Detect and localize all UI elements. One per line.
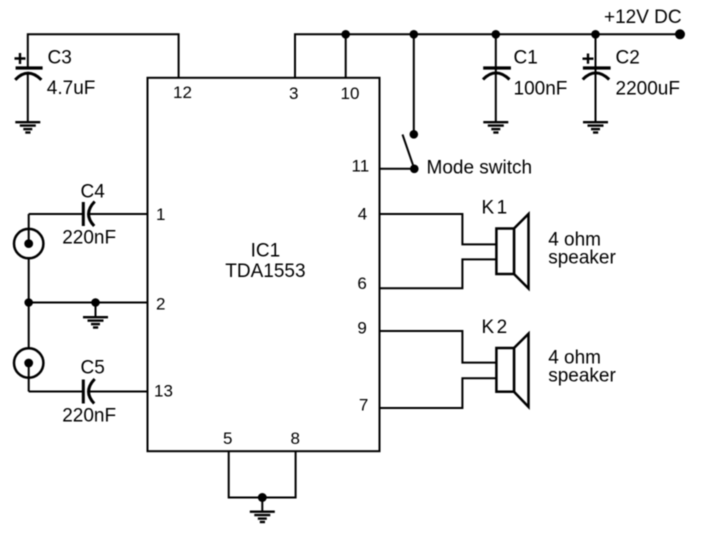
ground below C1 — [483, 122, 508, 132]
svg-text:C5: C5 — [81, 358, 105, 379]
svg-text:220nF: 220nF — [62, 228, 116, 249]
svg-text:11: 11 — [352, 157, 370, 176]
connector J1 input — [14, 229, 43, 258]
svg-text:220nF: 220nF — [62, 406, 116, 427]
ground below C3 — [15, 122, 40, 132]
connector J2 input — [14, 348, 43, 377]
wire C3 top to pin 12 — [28, 34, 179, 78]
wire C2 to ground — [595, 74, 597, 121]
node junction pin5/8 ground — [258, 493, 267, 502]
svg-text:C4: C4 — [81, 182, 106, 203]
svg-text:speaker: speaker — [548, 247, 616, 268]
wire ground stub bottom — [261, 498, 263, 511]
svg-text:12: 12 — [173, 83, 192, 102]
svg-text:4: 4 — [358, 205, 367, 224]
ground below C2 — [583, 122, 608, 132]
wire pin 7 to K2 — [380, 378, 497, 408]
svg-text:2200uF: 2200uF — [616, 79, 680, 100]
wire C1 to ground — [495, 74, 497, 121]
svg-text:13: 13 — [154, 382, 173, 401]
svg-text:3: 3 — [289, 84, 298, 103]
wire ground stub pin2 — [95, 303, 97, 317]
wire pin 11 — [380, 168, 415, 170]
svg-text:+12V DC: +12V DC — [604, 7, 682, 28]
svg-text:speaker: speaker — [548, 366, 616, 387]
svg-text:IC1: IC1 — [251, 241, 281, 262]
svg-text:K2: K2 — [482, 317, 510, 338]
svg-text:8: 8 — [291, 429, 300, 448]
speaker K1 — [496, 214, 528, 289]
wire pin 1 line — [29, 213, 148, 215]
svg-text:K1: K1 — [482, 198, 510, 219]
capacitor C4 — [62, 182, 116, 249]
switch S1 mode switch — [403, 130, 419, 173]
capacitor C2 — [583, 34, 680, 99]
svg-text:TDA1553: TDA1553 — [225, 261, 305, 282]
svg-text:9: 9 — [357, 319, 366, 338]
IC U1 box TDA1553 — [148, 78, 380, 451]
ground below IC — [250, 512, 275, 522]
wire input bus vertical — [28, 214, 30, 392]
wire pin 6 to K1 — [380, 259, 497, 288]
wire power rail pin3 to +12V — [295, 34, 680, 78]
node junction C1/rail — [492, 30, 501, 39]
wire mode switch drop — [413, 34, 415, 134]
capacitor C5 — [62, 358, 116, 427]
wire pin 2 line — [29, 302, 148, 304]
capacitor C1 — [483, 34, 567, 99]
wire pin 13 line — [29, 391, 148, 393]
svg-text:C3: C3 — [48, 48, 72, 69]
wire pin 5 / pin 8 to ground — [229, 451, 296, 497]
wire pin 10 riser — [345, 34, 347, 78]
wire pin 9 to K2 — [380, 331, 497, 363]
svg-text:10: 10 — [341, 84, 360, 103]
wire pin 4 to K1 — [380, 214, 497, 244]
svg-text:C1: C1 — [514, 48, 538, 69]
svg-text:4.7uF: 4.7uF — [47, 78, 96, 99]
svg-text:7: 7 — [359, 396, 368, 415]
node junction C2/rail — [591, 30, 600, 39]
svg-text:1: 1 — [156, 205, 165, 224]
svg-text:100nF: 100nF — [514, 79, 568, 100]
node junction pin10/rail — [341, 30, 350, 39]
svg-text:6: 6 — [357, 274, 366, 293]
ground on pin 2 line — [83, 317, 108, 327]
svg-text:Mode switch: Mode switch — [427, 158, 533, 179]
speaker K2 — [496, 334, 528, 407]
wire C3 to ground — [27, 74, 29, 121]
svg-text:2: 2 — [156, 295, 165, 314]
svg-text:5: 5 — [223, 429, 232, 448]
node +12V DC terminal — [675, 29, 685, 39]
svg-text:C2: C2 — [616, 48, 640, 69]
node junction ground tap — [91, 298, 100, 307]
capacitor C3 — [15, 48, 96, 100]
node junction switch/rail — [410, 30, 419, 39]
node junction input bus / pin2 — [24, 298, 33, 307]
